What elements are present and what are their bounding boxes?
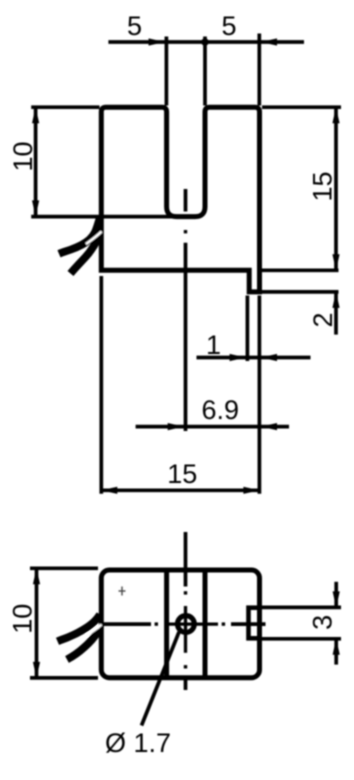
svg-text:5: 5 bbox=[127, 11, 142, 41]
svg-text:15: 15 bbox=[167, 459, 197, 489]
svg-text:5: 5 bbox=[221, 11, 236, 41]
svg-text:Ø 1.7: Ø 1.7 bbox=[105, 728, 171, 758]
svg-text:1: 1 bbox=[206, 330, 221, 360]
svg-text:10: 10 bbox=[8, 604, 38, 634]
svg-text:2: 2 bbox=[308, 312, 338, 327]
svg-text:6.9: 6.9 bbox=[202, 395, 240, 425]
svg-text:10: 10 bbox=[8, 141, 38, 171]
svg-text:15: 15 bbox=[308, 171, 338, 201]
svg-text:3: 3 bbox=[307, 615, 337, 630]
